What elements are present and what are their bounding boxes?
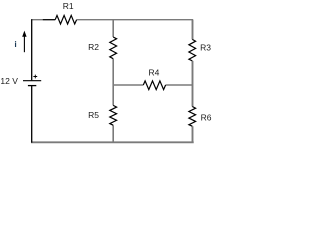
svg-text:R2: R2	[88, 42, 99, 52]
resistor R4 zigzag (middle horizontal branch)	[143, 81, 165, 90]
wire bottom (ground return net)	[31, 141, 194, 143]
resistor R1 zigzag	[55, 15, 76, 24]
battery plus sign	[33, 75, 37, 79]
wire left (battery branch, black)	[31, 19, 33, 142]
battery V1 12V: long positive plate	[23, 80, 41, 82]
current arrow i (shaft)	[23, 36, 25, 53]
svg-text:R4: R4	[148, 68, 159, 78]
wire R4 branch horizontal	[113, 84, 192, 86]
wire top (node between battery + and R1/R2/R3 net)	[31, 19, 193, 21]
svg-text:12 V: 12 V	[0, 76, 18, 86]
svg-text:R3: R3	[200, 42, 211, 52]
current arrow i (head)	[22, 31, 26, 37]
resistor R3 zigzag (right branch upper)	[189, 39, 196, 61]
svg-text:R1: R1	[63, 1, 74, 11]
svg-text:R6: R6	[201, 112, 212, 122]
battery V1 12V: short negative plate	[28, 85, 36, 87]
resistor R1 (horizontal, top wire) black lead	[43, 19, 55, 21]
resistor R2 zigzag (middle branch upper)	[110, 37, 117, 59]
wire middle vertical branch (R2/R5 branch)	[112, 20, 114, 142]
resistor R5 zigzag (middle branch lower)	[110, 105, 117, 125]
svg-text:R5: R5	[88, 110, 99, 120]
wire right vertical branch (R3/R6 branch)	[192, 20, 194, 143]
svg-text:i: i	[14, 39, 16, 49]
resistor R6 zigzag (right branch lower)	[189, 107, 196, 127]
